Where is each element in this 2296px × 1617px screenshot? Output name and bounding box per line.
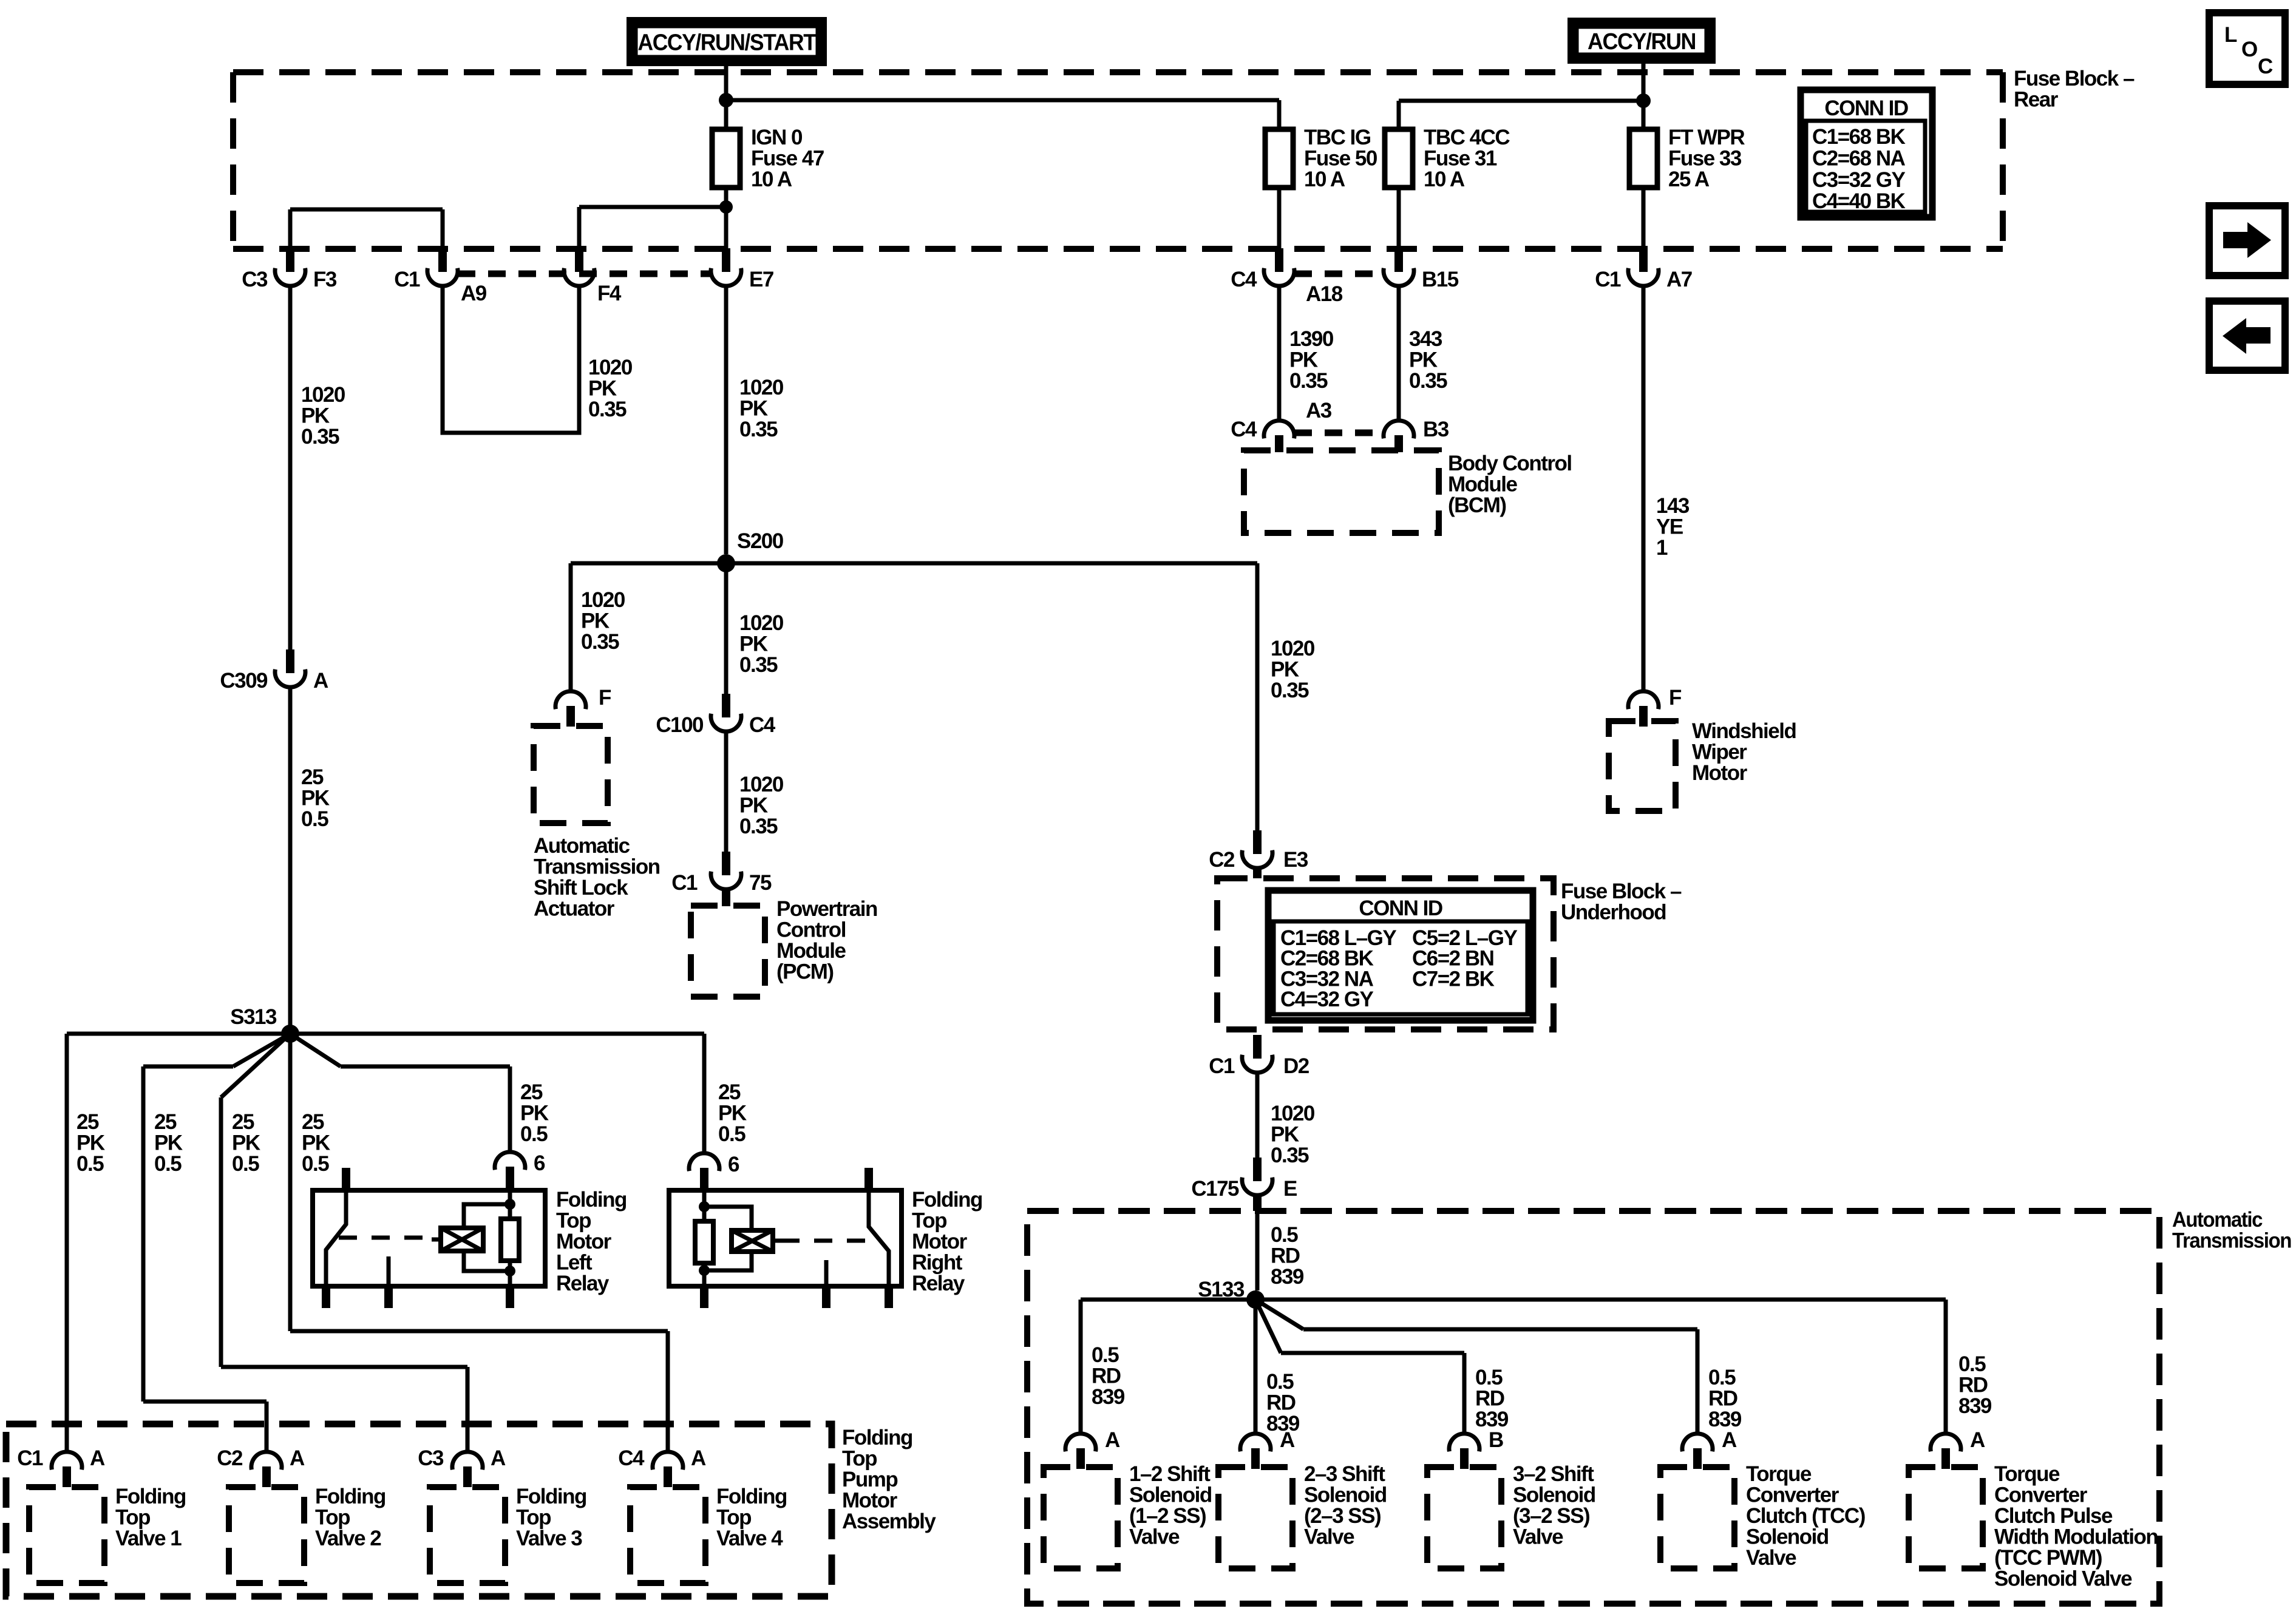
svg-text:25: 25 <box>302 1110 324 1134</box>
svg-text:Wiper: Wiper <box>1692 741 1747 764</box>
svg-text:PK: PK <box>1271 1123 1299 1147</box>
svg-text:B: B <box>1489 1428 1503 1452</box>
svg-text:RD: RD <box>1475 1387 1504 1411</box>
svg-text:O: O <box>2241 38 2257 61</box>
svg-text:6: 6 <box>534 1151 545 1175</box>
svg-text:0.5: 0.5 <box>1958 1352 1986 1376</box>
svg-text:Module: Module <box>1448 473 1518 497</box>
svg-text:Folding: Folding <box>556 1188 627 1212</box>
svg-text:Module: Module <box>776 939 846 963</box>
svg-text:1: 1 <box>1656 536 1668 560</box>
svg-text:PK: PK <box>154 1131 183 1155</box>
svg-text:D2: D2 <box>1283 1054 1309 1078</box>
svg-text:A: A <box>1970 1428 1985 1452</box>
svg-text:Right: Right <box>912 1251 963 1275</box>
svg-text:Fuse 47: Fuse 47 <box>751 147 824 171</box>
svg-text:IGN 0: IGN 0 <box>751 126 803 149</box>
svg-text:Valve 1: Valve 1 <box>115 1527 182 1550</box>
svg-text:0.35: 0.35 <box>739 653 778 677</box>
svg-text:Valve 4: Valve 4 <box>716 1527 783 1550</box>
svg-text:FT WPR: FT WPR <box>1668 126 1745 149</box>
svg-text:C175: C175 <box>1191 1177 1239 1201</box>
svg-text:Body Control: Body Control <box>1448 452 1572 475</box>
svg-text:1020: 1020 <box>739 611 784 635</box>
svg-text:C1: C1 <box>1209 1054 1235 1078</box>
svg-text:0.35: 0.35 <box>581 630 619 654</box>
svg-text:839: 839 <box>1271 1265 1304 1289</box>
svg-text:Clutch Pulse: Clutch Pulse <box>1994 1504 2113 1528</box>
svg-text:C4=32 GY: C4=32 GY <box>1280 988 1374 1011</box>
svg-text:Automatic: Automatic <box>534 834 630 858</box>
svg-text:Top: Top <box>115 1506 150 1530</box>
svg-text:0.5: 0.5 <box>520 1122 548 1146</box>
svg-text:PK: PK <box>520 1102 549 1125</box>
svg-text:Folding: Folding <box>912 1188 982 1212</box>
svg-text:0.35: 0.35 <box>739 418 778 441</box>
svg-text:PK: PK <box>739 794 768 818</box>
svg-text:25 A: 25 A <box>1668 168 1710 191</box>
svg-text:Valve: Valve <box>1129 1525 1180 1549</box>
svg-text:A: A <box>290 1446 305 1470</box>
svg-text:(BCM): (BCM) <box>1448 493 1506 517</box>
svg-text:25: 25 <box>154 1110 177 1134</box>
svg-text:Motor: Motor <box>556 1230 612 1253</box>
svg-text:0.35: 0.35 <box>1289 369 1328 393</box>
svg-text:A: A <box>1105 1428 1120 1452</box>
svg-text:25: 25 <box>232 1110 254 1134</box>
svg-text:PK: PK <box>581 609 610 633</box>
svg-text:C1=68 BK: C1=68 BK <box>1812 125 1906 149</box>
svg-text:0.35: 0.35 <box>1271 679 1309 702</box>
svg-text:A: A <box>1722 1428 1737 1452</box>
svg-text:75: 75 <box>749 871 772 895</box>
svg-text:0.35: 0.35 <box>1409 369 1447 393</box>
svg-text:1020: 1020 <box>1271 637 1315 660</box>
svg-text:839: 839 <box>1958 1394 1992 1418</box>
svg-text:Fuse 50: Fuse 50 <box>1304 147 1377 171</box>
svg-text:Fuse 33: Fuse 33 <box>1668 147 1742 171</box>
svg-text:PK: PK <box>302 1131 330 1155</box>
svg-text:A: A <box>491 1446 506 1470</box>
svg-text:10 A: 10 A <box>751 168 792 191</box>
svg-text:Solenoid Valve: Solenoid Valve <box>1994 1567 2132 1591</box>
svg-text:S200: S200 <box>737 529 784 553</box>
svg-text:25: 25 <box>520 1080 543 1104</box>
svg-text:25: 25 <box>718 1080 741 1104</box>
svg-text:Relay: Relay <box>556 1272 610 1295</box>
svg-text:C3: C3 <box>242 268 268 291</box>
svg-text:Top: Top <box>842 1447 877 1471</box>
svg-text:Fuse Block –: Fuse Block – <box>1561 880 1682 903</box>
svg-text:C4: C4 <box>1231 418 1257 441</box>
svg-text:Top: Top <box>516 1506 551 1530</box>
svg-text:Left: Left <box>556 1251 593 1275</box>
svg-text:0.35: 0.35 <box>588 398 627 421</box>
svg-text:Valve: Valve <box>1513 1525 1563 1549</box>
svg-text:Solenoid: Solenoid <box>1746 1525 1829 1549</box>
svg-text:0.5: 0.5 <box>301 807 328 831</box>
svg-text:E: E <box>1283 1177 1297 1201</box>
svg-text:3–2 Shift: 3–2 Shift <box>1513 1462 1594 1486</box>
svg-text:Assembly: Assembly <box>842 1510 936 1533</box>
svg-text:RD: RD <box>1958 1374 1988 1397</box>
svg-text:10 A: 10 A <box>1424 168 1465 191</box>
svg-text:0.5: 0.5 <box>1092 1343 1119 1367</box>
svg-text:A: A <box>1280 1428 1295 1452</box>
svg-text:C1: C1 <box>17 1446 43 1470</box>
svg-text:Rear: Rear <box>2014 88 2059 112</box>
svg-text:RD: RD <box>1708 1387 1737 1411</box>
svg-text:Fuse 31: Fuse 31 <box>1424 147 1497 171</box>
svg-text:1390: 1390 <box>1289 327 1334 351</box>
svg-text:10 A: 10 A <box>1304 168 1345 191</box>
svg-text:CONN ID: CONN ID <box>1359 897 1442 920</box>
svg-text:C3=32 GY: C3=32 GY <box>1812 168 1906 192</box>
svg-text:PK: PK <box>1409 348 1438 372</box>
svg-text:PK: PK <box>1289 348 1318 372</box>
svg-text:C3: C3 <box>418 1446 444 1470</box>
svg-text:(1–2 SS): (1–2 SS) <box>1129 1504 1206 1528</box>
svg-text:Width Modulation: Width Modulation <box>1994 1525 2158 1549</box>
svg-text:Converter: Converter <box>1994 1483 2088 1507</box>
svg-text:PK: PK <box>588 377 617 401</box>
svg-text:F4: F4 <box>597 282 622 305</box>
svg-text:(TCC PWM): (TCC PWM) <box>1994 1546 2102 1570</box>
svg-text:C1: C1 <box>671 871 698 895</box>
svg-text:A3: A3 <box>1306 399 1332 422</box>
svg-text:Transmission: Transmission <box>534 855 660 879</box>
svg-text:A: A <box>90 1446 105 1470</box>
svg-text:Converter: Converter <box>1746 1483 1839 1507</box>
svg-text:C1: C1 <box>394 268 420 291</box>
svg-text:A: A <box>691 1446 706 1470</box>
svg-text:RD: RD <box>1092 1364 1121 1388</box>
svg-text:Shift Lock: Shift Lock <box>534 876 628 900</box>
svg-text:Folding: Folding <box>516 1485 586 1508</box>
svg-text:F: F <box>599 686 611 710</box>
svg-text:(2–3 SS): (2–3 SS) <box>1304 1504 1381 1528</box>
svg-text:839: 839 <box>1092 1385 1125 1409</box>
svg-text:Powertrain: Powertrain <box>776 897 877 921</box>
svg-text:Control: Control <box>776 918 846 942</box>
svg-text:C309: C309 <box>220 669 268 693</box>
svg-text:L: L <box>2224 23 2237 47</box>
svg-text:Relay: Relay <box>912 1272 965 1295</box>
svg-text:C4=40 BK: C4=40 BK <box>1812 189 1906 213</box>
svg-text:PK: PK <box>301 787 330 810</box>
svg-text:A7: A7 <box>1666 268 1692 291</box>
svg-text:ACCY/RUN: ACCY/RUN <box>1588 29 1696 55</box>
svg-text:A9: A9 <box>461 282 487 305</box>
svg-text:PK: PK <box>739 397 768 421</box>
svg-text:C2: C2 <box>1209 848 1235 872</box>
svg-text:Clutch (TCC): Clutch (TCC) <box>1746 1504 1865 1528</box>
svg-text:143: 143 <box>1656 494 1690 518</box>
svg-text:Motor: Motor <box>912 1230 968 1253</box>
svg-text:TBC IG: TBC IG <box>1304 126 1371 149</box>
svg-text:PK: PK <box>739 632 768 656</box>
svg-text:0.35: 0.35 <box>739 815 778 838</box>
svg-text:0.5: 0.5 <box>1271 1223 1298 1247</box>
svg-text:Valve 2: Valve 2 <box>315 1527 381 1550</box>
svg-text:CONN ID: CONN ID <box>1824 97 1908 120</box>
svg-text:0.5: 0.5 <box>1708 1366 1736 1389</box>
svg-text:Transmission: Transmission <box>2172 1229 2291 1253</box>
svg-text:(3–2 SS): (3–2 SS) <box>1513 1504 1589 1528</box>
svg-text:Fuse Block –: Fuse Block – <box>2014 67 2135 90</box>
svg-text:C7=2 BK: C7=2 BK <box>1412 967 1495 991</box>
svg-text:B15: B15 <box>1422 268 1459 291</box>
svg-text:Solenoid: Solenoid <box>1513 1483 1595 1507</box>
svg-text:Folding: Folding <box>315 1485 385 1508</box>
svg-text:1020: 1020 <box>301 383 345 407</box>
svg-text:0.5: 0.5 <box>232 1152 259 1176</box>
svg-text:1020: 1020 <box>1271 1102 1315 1125</box>
svg-text:Solenoid: Solenoid <box>1304 1483 1387 1507</box>
svg-text:Top: Top <box>912 1209 946 1233</box>
svg-text:Valve 3: Valve 3 <box>516 1527 582 1550</box>
svg-text:YE: YE <box>1656 515 1683 539</box>
svg-text:0.5: 0.5 <box>718 1122 746 1146</box>
svg-text:25: 25 <box>76 1110 99 1134</box>
svg-text:1020: 1020 <box>581 588 625 612</box>
svg-text:2–3 Shift: 2–3 Shift <box>1304 1462 1385 1486</box>
svg-text:0.35: 0.35 <box>1271 1144 1309 1167</box>
svg-text:PK: PK <box>232 1131 260 1155</box>
svg-text:PK: PK <box>718 1102 747 1125</box>
svg-text:Motor: Motor <box>1692 761 1748 785</box>
svg-text:F3: F3 <box>313 268 337 291</box>
svg-text:PK: PK <box>1271 658 1299 682</box>
svg-text:343: 343 <box>1409 327 1442 351</box>
svg-text:B3: B3 <box>1423 418 1449 441</box>
svg-text:25: 25 <box>301 765 324 789</box>
svg-text:Top: Top <box>556 1209 591 1233</box>
svg-text:RD: RD <box>1271 1244 1300 1268</box>
svg-text:Motor: Motor <box>842 1489 898 1513</box>
svg-text:0.5: 0.5 <box>1475 1366 1503 1389</box>
svg-text:A: A <box>313 669 328 693</box>
svg-text:1020: 1020 <box>588 356 633 379</box>
svg-text:E7: E7 <box>749 268 773 291</box>
svg-text:TBC 4CC: TBC 4CC <box>1424 126 1510 149</box>
svg-text:0.5: 0.5 <box>302 1152 329 1176</box>
svg-text:(PCM): (PCM) <box>776 960 834 984</box>
svg-text:F: F <box>1669 686 1682 710</box>
svg-text:Pump: Pump <box>842 1468 897 1491</box>
svg-text:Solenoid: Solenoid <box>1129 1483 1212 1507</box>
svg-text:PK: PK <box>76 1131 105 1155</box>
svg-text:Valve: Valve <box>1304 1525 1354 1549</box>
svg-text:C4: C4 <box>618 1446 645 1470</box>
svg-text:Actuator: Actuator <box>534 897 615 921</box>
svg-text:Underhood: Underhood <box>1561 901 1666 924</box>
svg-text:Torque: Torque <box>1746 1462 1812 1486</box>
svg-text:C4: C4 <box>1231 268 1257 291</box>
svg-text:1–2 Shift: 1–2 Shift <box>1129 1462 1211 1486</box>
svg-text:C1: C1 <box>1595 268 1621 291</box>
svg-text:0.5: 0.5 <box>1266 1370 1294 1394</box>
svg-text:S313: S313 <box>230 1005 277 1029</box>
svg-text:6: 6 <box>728 1153 739 1176</box>
svg-text:C4: C4 <box>749 713 776 737</box>
svg-text:Windshield: Windshield <box>1692 719 1796 743</box>
svg-text:Top: Top <box>716 1506 751 1530</box>
svg-text:Automatic: Automatic <box>2172 1208 2263 1232</box>
svg-text:0.35: 0.35 <box>301 425 339 449</box>
svg-text:Torque: Torque <box>1994 1462 2060 1486</box>
svg-text:C: C <box>2258 55 2273 78</box>
svg-text:1020: 1020 <box>739 773 784 796</box>
svg-text:C2=68 NA: C2=68 NA <box>1812 146 1906 170</box>
svg-text:E3: E3 <box>1283 848 1308 872</box>
svg-text:Folding: Folding <box>716 1485 787 1508</box>
svg-text:Valve: Valve <box>1746 1546 1796 1570</box>
svg-text:1020: 1020 <box>739 376 784 399</box>
svg-text:Folding: Folding <box>842 1426 912 1449</box>
svg-text:C2: C2 <box>217 1446 243 1470</box>
svg-text:A18: A18 <box>1306 282 1343 306</box>
svg-text:ACCY/RUN/START: ACCY/RUN/START <box>638 30 817 56</box>
svg-text:RD: RD <box>1266 1391 1296 1415</box>
svg-text:0.5: 0.5 <box>154 1152 182 1176</box>
svg-text:0.5: 0.5 <box>76 1152 104 1176</box>
svg-text:Top: Top <box>315 1506 350 1530</box>
svg-text:PK: PK <box>301 404 330 428</box>
svg-text:Folding: Folding <box>115 1485 186 1508</box>
svg-text:C100: C100 <box>656 713 704 737</box>
